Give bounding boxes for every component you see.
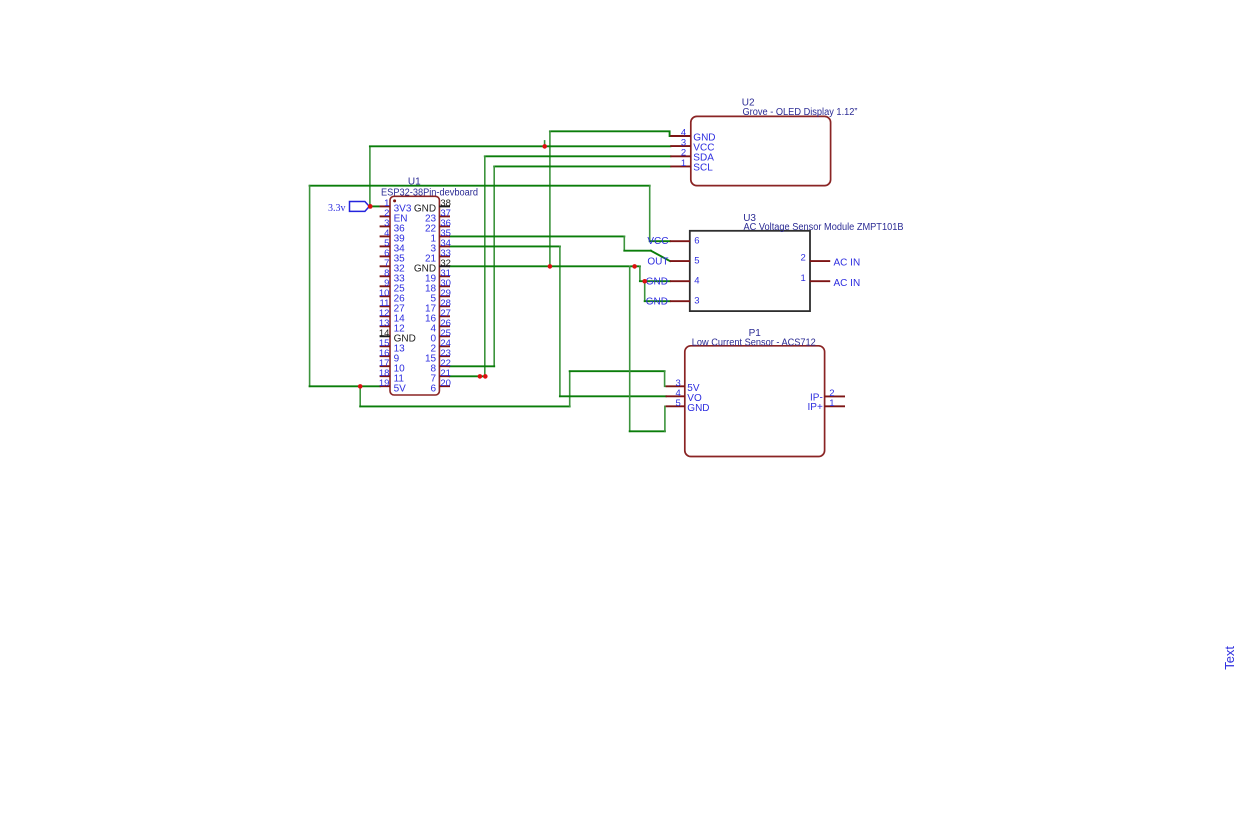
U1 pin 17 (10) left bbox=[380, 365, 391, 367]
P1 pin 1 (IP+) bbox=[825, 405, 846, 407]
svg-text:3: 3 bbox=[694, 296, 699, 307]
wire SCL net horizontal from U1 pin22 bbox=[450, 365, 494, 367]
U1 pin 24 (2) right bbox=[439, 345, 450, 347]
wire VO net horizontal to P1 pin4 bbox=[560, 395, 666, 397]
wire GND net vertical from U2 pin4 down to GND bus bbox=[549, 131, 551, 266]
P1 pin 2 (IP-) bbox=[825, 395, 846, 397]
wire 5V net vertical down to U3 VCC bbox=[649, 186, 651, 242]
svg-text:GND: GND bbox=[687, 403, 709, 414]
wire GND bus horizontal from U1 pin32 bbox=[450, 265, 640, 267]
U1 pin 35 (1) right bbox=[439, 235, 450, 237]
U1 pin 11 (27) left bbox=[380, 305, 391, 307]
power flag 3.3v bbox=[350, 202, 370, 212]
connector P1 Low Current Sensor body bbox=[685, 346, 825, 457]
wire 5V branch vertical below junction bbox=[359, 386, 361, 406]
U1 pin 3 (36) left bbox=[380, 225, 391, 227]
wire GND net horizontal through GND label to U3 pin3 bbox=[645, 300, 670, 302]
wire OUT net vertical step bbox=[623, 236, 625, 250]
wire 5V branch vertical up bbox=[569, 371, 571, 406]
U1 pin 14 (GND) left bbox=[380, 335, 391, 337]
U1 pin 19 (5V) left bbox=[380, 385, 391, 387]
U1 pin 38 (GND) right bbox=[439, 205, 450, 207]
U1 pin 6 (35) left bbox=[380, 255, 391, 257]
U2 pin 1 (SCL) bbox=[670, 165, 691, 167]
IC U3 AC Voltage Sensor body bbox=[690, 231, 810, 311]
U3 pin 6 left bbox=[670, 240, 690, 242]
U1 pin 18 (11) left bbox=[380, 375, 391, 377]
U1 pin1 marker dot bbox=[393, 199, 396, 202]
svg-text:3.3v: 3.3v bbox=[328, 202, 346, 214]
svg-text:U1: U1 bbox=[408, 176, 421, 187]
svg-text:5: 5 bbox=[694, 256, 699, 267]
U1 pin 20 (6) right bbox=[439, 385, 450, 387]
svg-text:AC Voltage Sensor Module ZMPT1: AC Voltage Sensor Module ZMPT101B bbox=[744, 222, 904, 233]
wire 3V3 net vertical (flag to U2 VCC wire) bbox=[369, 146, 371, 206]
wire stub above junction on 3V3 wire bbox=[544, 141, 546, 147]
junction dot 3.3v flag at U1 pin1 bbox=[368, 204, 373, 209]
wire GND net vertical down to P1 bbox=[629, 266, 631, 431]
U1 pin 25 (0) right bbox=[439, 335, 450, 337]
junction dot GND bus / U2 pin4 branch bbox=[548, 264, 553, 269]
wire VO net vertical down bbox=[559, 246, 561, 396]
P1 pin 4 (VO) bbox=[666, 395, 685, 397]
svg-text:1: 1 bbox=[681, 158, 686, 169]
U1 pin 15 (13) left bbox=[380, 345, 391, 347]
junction dot GND bus / U3 branch bbox=[632, 264, 637, 269]
U1 pin 32 (GND) right bbox=[439, 265, 450, 267]
svg-text:Grove - OLED Display 1.12”: Grove - OLED Display 1.12” bbox=[743, 107, 858, 118]
IC U1 ESP32-38Pin-devboard body bbox=[390, 196, 439, 395]
svg-text:5: 5 bbox=[676, 398, 681, 409]
wire SDA net vertical down to U1 pin21 bbox=[484, 156, 486, 376]
U3 pin 4 left bbox=[670, 280, 690, 282]
svg-text:Low Current Sensor - ACS712: Low Current Sensor - ACS712 bbox=[692, 337, 816, 348]
junction dot 5V at U1 pin19 wire bbox=[358, 384, 363, 389]
U1 pin 26 (4) right bbox=[439, 325, 450, 327]
U1 pin 1 (3V3) left bbox=[380, 205, 391, 207]
U3 pin 2 right (AC IN) bbox=[810, 260, 830, 262]
wire GND net vertical to U3 pin3 bbox=[644, 281, 646, 301]
IC U2 Grove OLED Display body bbox=[691, 116, 831, 185]
U1 pin 33 (21) right bbox=[439, 255, 450, 257]
svg-text:OUT: OUT bbox=[647, 257, 668, 268]
wire SCL net vertical down to U1 pin22 wire bbox=[493, 166, 495, 366]
U1 pin 13 (12) left bbox=[380, 325, 391, 327]
svg-text:6: 6 bbox=[694, 236, 699, 247]
wire SDA net horizontal to U2 pin2 bbox=[485, 155, 671, 157]
junction dot GND at U3 pin4 bbox=[642, 279, 647, 284]
wire 5V branch horizontal lower bbox=[360, 405, 570, 407]
wire OUT net diagonal to U3 pin5 bbox=[651, 251, 670, 261]
wire SCL net horizontal to U2 pin1 bbox=[494, 165, 670, 167]
U1 pin 8 (33) left bbox=[380, 275, 391, 277]
U1 pin 7 (32) left bbox=[380, 265, 391, 267]
svg-text:2: 2 bbox=[801, 253, 806, 264]
U2 pin 4 (GND) bbox=[670, 135, 691, 137]
wire 5V branch down to P1 pin3 bbox=[665, 371, 666, 386]
wire SDA net short horizontal at U1 pin21 bbox=[450, 375, 486, 377]
wire GND net U2 pin4 horizontal with step bbox=[550, 131, 671, 136]
U1 pin 28 (17) right bbox=[439, 305, 450, 307]
U1 pin 4 (39) left bbox=[380, 235, 391, 237]
U1 pin 37 (23) right bbox=[439, 215, 450, 217]
wire OUT net horizontal step bbox=[624, 250, 651, 252]
junction dot at U1 pin21 wire left bbox=[478, 374, 483, 379]
svg-text:GND: GND bbox=[646, 297, 668, 308]
svg-text:AC IN: AC IN bbox=[834, 278, 861, 289]
U1 pin 22 (8) right bbox=[439, 365, 450, 367]
svg-text:6: 6 bbox=[431, 384, 437, 395]
U3 pin 3 left bbox=[670, 300, 690, 302]
U2 pin 3 (VCC) bbox=[670, 145, 691, 147]
U1 pin 34 (3) right bbox=[439, 245, 450, 247]
P1 pin 3 (5V) bbox=[666, 385, 685, 387]
U2 pin 2 (SDA) bbox=[670, 155, 691, 157]
svg-text:GND: GND bbox=[646, 277, 668, 288]
U1 pin 36 (22) right bbox=[439, 225, 450, 227]
wire 5V net horizontal to U1 pin19 bbox=[310, 385, 380, 387]
svg-text:19: 19 bbox=[379, 378, 390, 389]
junction dot at U1 pin21 wire right bbox=[483, 374, 488, 379]
junction dot on 3V3 wire bbox=[542, 144, 547, 149]
P1 pin 5 (GND) bbox=[666, 405, 685, 407]
svg-text:SCL: SCL bbox=[693, 163, 713, 174]
U1 pin 10 (26) left bbox=[380, 295, 391, 297]
svg-text:1: 1 bbox=[801, 273, 806, 284]
U1 pin 23 (15) right bbox=[439, 355, 450, 357]
wire GND net bottom horizontal bbox=[630, 430, 665, 432]
U1 pin 12 (14) left bbox=[380, 315, 391, 317]
U1 pin 29 (5) right bbox=[439, 295, 450, 297]
wire 5V net horizontal through VCC label to U3 pin6 bbox=[650, 240, 670, 242]
wire 5V branch horizontal upper bbox=[570, 370, 665, 372]
U1 pin 30 (18) right bbox=[439, 285, 450, 287]
U1 pin 21 (7) right bbox=[439, 375, 450, 377]
wire 3V3 net horizontal to U2 pin3 VCC bbox=[370, 145, 671, 147]
wire VO net horizontal from U1 pin34 bbox=[450, 245, 560, 247]
svg-text:Text: Text bbox=[1222, 646, 1237, 670]
wire GND net vertical up to P1 pin5 bbox=[664, 406, 666, 431]
wire GND to U3 vertical step bbox=[639, 266, 641, 281]
svg-text:ESP32-38Pin-devboard: ESP32-38Pin-devboard bbox=[381, 188, 478, 199]
U1 pin 31 (19) right bbox=[439, 275, 450, 277]
U3 pin 5 left bbox=[670, 260, 690, 262]
svg-text:1: 1 bbox=[829, 398, 834, 409]
svg-text:VCC: VCC bbox=[647, 236, 668, 247]
wire 5V net top rail horizontal bbox=[310, 185, 650, 187]
svg-text:AC IN: AC IN bbox=[834, 258, 861, 269]
svg-text:4: 4 bbox=[694, 276, 699, 287]
wire GND net horizontal through GND label to U3 pin4 bbox=[640, 280, 670, 282]
svg-text:20: 20 bbox=[440, 378, 451, 389]
U3 pin 1 right (AC IN) bbox=[810, 280, 830, 282]
U1 pin 5 (34) left bbox=[380, 245, 391, 247]
U1 pin 27 (16) right bbox=[439, 315, 450, 317]
U1 pin 2 (EN) left bbox=[380, 215, 391, 217]
U1 pin 16 (9) left bbox=[380, 355, 391, 357]
svg-text:IP+: IP+ bbox=[808, 402, 823, 413]
svg-text:5V: 5V bbox=[394, 384, 407, 395]
U1 pin 9 (25) left bbox=[380, 285, 391, 287]
wire OUT net horizontal from U1 pin35 bbox=[450, 235, 625, 237]
wire 5V net left rail vertical bbox=[309, 186, 311, 387]
